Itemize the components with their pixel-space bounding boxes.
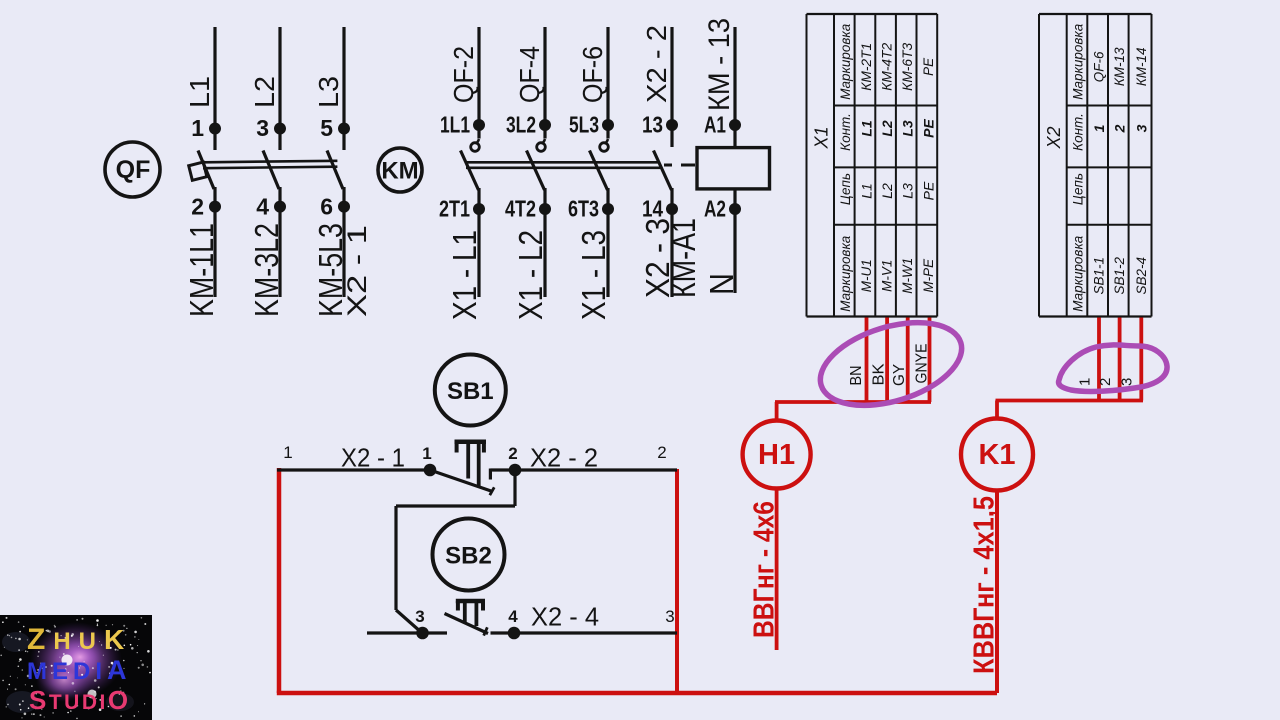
svg-text:КМ - 13: КМ - 13 <box>703 18 736 111</box>
svg-text:1: 1 <box>283 443 292 462</box>
node 4 <box>274 201 286 213</box>
wire to node 2T1 <box>477 188 480 297</box>
KM pole 3L2-4T2 moving contact <box>527 151 545 191</box>
svg-text:A1: A1 <box>704 112 726 138</box>
QF linkage bar <box>203 161 337 163</box>
svg-text:BK: BK <box>871 363 888 385</box>
svg-text:3: 3 <box>256 115 269 141</box>
svg-text:SB1: SB1 <box>447 378 494 405</box>
svg-text:X2 - 2: X2 - 2 <box>641 25 672 103</box>
svg-text:1: 1 <box>1091 124 1107 132</box>
main contact hook <box>542 139 546 144</box>
svg-text:М-W1: М-W1 <box>900 258 915 294</box>
svg-text:2: 2 <box>657 443 666 462</box>
svg-text:PE: PE <box>920 119 936 138</box>
wire X2-2 to loop <box>515 468 677 471</box>
svg-text:1: 1 <box>422 444 431 463</box>
svg-text:2: 2 <box>508 444 517 463</box>
wire bus to H1 <box>775 400 931 404</box>
svg-text:X1: X1 <box>812 126 832 149</box>
svg-text:SB2: SB2 <box>445 543 492 570</box>
svg-text:Маркировка: Маркировка <box>1071 23 1086 99</box>
wire to KM-3L2 <box>278 187 281 297</box>
red loop right wire <box>675 469 679 693</box>
terminal block table X1 <box>807 14 938 317</box>
node 1L1 <box>473 119 485 131</box>
KM designator circle <box>378 148 422 192</box>
KM pole 13-14: upper wire <box>670 27 673 147</box>
node 5 <box>338 123 350 135</box>
svg-text:3L2: 3L2 <box>506 112 536 138</box>
svg-text:2: 2 <box>1112 124 1128 133</box>
svg-text:КМ-А1: КМ-А1 <box>665 218 702 298</box>
svg-text:X2 - 2: X2 - 2 <box>530 443 598 473</box>
node A2 <box>729 203 741 215</box>
svg-text:КМ-13: КМ-13 <box>1112 47 1127 86</box>
KM pole 1L1-2T1 moving contact <box>461 151 479 191</box>
svg-text:X2: X2 <box>1044 126 1064 149</box>
svg-text:2: 2 <box>191 194 204 220</box>
svg-text:КМ-2Т1: КМ-2Т1 <box>859 43 874 91</box>
svg-text:3: 3 <box>1133 124 1149 132</box>
svg-text:КВВГнг - 4х1,5: КВВГнг - 4х1,5 <box>969 496 1001 674</box>
wire X2-4 to loop <box>491 631 678 634</box>
svg-text:X1 - L3: X1 - L3 <box>575 230 612 320</box>
svg-text:L2: L2 <box>879 120 895 137</box>
SB2 contact node 3 <box>416 627 429 640</box>
svg-text:1: 1 <box>191 115 204 141</box>
svg-text:5L3: 5L3 <box>569 112 599 138</box>
wire to node 14 <box>670 188 673 297</box>
SB2 travel stop tick <box>484 627 488 635</box>
svg-text:6T3: 6T3 <box>568 196 599 222</box>
wire to KM-1L1 <box>213 187 216 297</box>
svg-text:РЕ: РЕ <box>921 57 936 76</box>
KM linkage bar (double line) <box>466 161 660 164</box>
QF designator circle <box>105 142 160 197</box>
hand-drawn blob around X2 core labels <box>1059 345 1167 392</box>
wire core BK <box>885 318 889 403</box>
svg-text:4: 4 <box>256 194 269 220</box>
svg-text:М-U1: М-U1 <box>859 259 874 292</box>
main contact hook <box>476 139 480 144</box>
svg-text:3: 3 <box>665 607 674 626</box>
wire X2-1 to SB1 <box>277 468 430 471</box>
KM pole 5L3-6T3 moving contact <box>590 151 608 191</box>
svg-text:1L1: 1L1 <box>440 112 470 138</box>
cable wires X1 to H1 <box>743 307 972 650</box>
coil KM (rectangle) <box>697 148 770 189</box>
QF pole 3: wire L3 <box>342 27 345 150</box>
wire core GY <box>906 318 910 403</box>
node 4T2 <box>539 203 551 215</box>
red loop left wire <box>277 468 282 693</box>
svg-text:L2: L2 <box>879 183 895 199</box>
SB1 contact node 1 <box>424 464 437 477</box>
svg-text:H1: H1 <box>758 439 795 471</box>
svg-text:Конт.: Конт. <box>838 113 853 151</box>
node 3L2 <box>539 119 551 131</box>
SB2 contact node 4 <box>508 627 521 640</box>
circuit breaker QF <box>105 27 372 317</box>
cable wires X2 to K1 <box>961 318 1167 694</box>
control circuit loop <box>277 355 997 694</box>
SB1 travel stop tick <box>490 487 494 495</box>
node 2 <box>209 201 221 213</box>
wire to KM-5L3 <box>342 187 345 297</box>
svg-text:L1: L1 <box>859 183 875 199</box>
svg-text:GY: GY <box>891 364 908 386</box>
contactor KM <box>378 18 770 320</box>
svg-text:13: 13 <box>642 112 663 138</box>
svg-text:QF-6: QF-6 <box>577 46 608 103</box>
svg-text:X1 - L2: X1 - L2 <box>512 230 549 320</box>
node 3 <box>274 123 286 135</box>
cable riser K1 to control loop <box>995 491 999 694</box>
node 2T1 <box>473 203 485 215</box>
svg-text:КМ-6Т3: КМ-6Т3 <box>900 42 915 90</box>
svg-text:5: 5 <box>320 115 333 141</box>
svg-text:1: 1 <box>1077 378 1094 386</box>
svg-text:L3: L3 <box>900 120 916 137</box>
wire core BN <box>865 318 869 403</box>
SB2 moving contact (NO) <box>445 614 489 634</box>
linkage dash to coil <box>664 164 672 167</box>
svg-text:ВВГнг - 4х6: ВВГнг - 4х6 <box>749 501 781 638</box>
SB2 left stub <box>367 631 447 634</box>
svg-text:КМ-4Т2: КМ-4Т2 <box>880 42 895 90</box>
svg-text:2T1: 2T1 <box>439 196 470 222</box>
svg-text:L3: L3 <box>900 183 916 199</box>
QF pole 3 moving contact <box>327 151 343 190</box>
svg-text:KM-3L2: KM-3L2 <box>248 223 285 317</box>
SB2 actuator <box>456 599 485 604</box>
svg-text:KM-1L1: KM-1L1 <box>183 223 220 317</box>
button circle SB2 <box>433 519 505 591</box>
svg-text:L1: L1 <box>184 76 215 108</box>
svg-text:MEDIA: MEDIA <box>27 655 132 685</box>
svg-text:SB1-2: SB1-2 <box>1112 256 1127 294</box>
svg-text:КМ-14: КМ-14 <box>1134 47 1149 86</box>
terminal block table X2 <box>1039 14 1152 317</box>
svg-text:2: 2 <box>1097 378 1114 386</box>
svg-text:X2 - 1: X2 - 1 <box>341 443 405 473</box>
svg-text:Маркировка: Маркировка <box>1071 235 1086 311</box>
svg-text:L2: L2 <box>249 76 280 108</box>
KM pole 13-14 moving contact <box>654 151 672 191</box>
wire to node 4T2 <box>543 188 546 297</box>
wire core 2 <box>1118 318 1122 401</box>
QF pole 1: wire L1 <box>213 27 216 150</box>
svg-text:QF-2: QF-2 <box>448 46 479 103</box>
svg-text:SB2-4: SB2-4 <box>1134 257 1149 295</box>
cable tail H1 <box>775 489 779 651</box>
svg-text:BN: BN <box>848 366 865 386</box>
svg-text:GNYE: GNYE <box>914 344 931 384</box>
svg-text:A2: A2 <box>704 196 726 222</box>
node 6T3 <box>602 203 614 215</box>
QF pole 2: wire L2 <box>278 27 281 150</box>
svg-text:Маркировка: Маркировка <box>838 235 853 311</box>
coil wire A1 <box>733 27 736 148</box>
svg-text:L1: L1 <box>859 120 875 137</box>
svg-text:SB1-1: SB1-1 <box>1092 257 1107 295</box>
svg-text:Конт.: Конт. <box>1071 113 1086 151</box>
SB1 actuator <box>455 440 487 445</box>
svg-text:X1 - L1: X1 - L1 <box>446 230 483 320</box>
svg-text:K1: K1 <box>978 439 1015 471</box>
wire core 1 <box>1097 318 1101 401</box>
SB1 moving contact (NC) <box>430 470 493 492</box>
wire to node 6T3 <box>606 188 609 297</box>
wire core GNYE <box>928 318 932 403</box>
svg-text:14: 14 <box>642 196 663 222</box>
lamp circle H1 <box>743 421 811 489</box>
node 14 <box>666 203 678 215</box>
cable circle K1 <box>961 419 1033 491</box>
svg-text:М-РЕ: М-РЕ <box>921 258 936 293</box>
main contact hook <box>605 139 609 144</box>
svg-text:PE: PE <box>920 181 936 200</box>
branch wire node2 to SB2 <box>513 470 516 506</box>
QF pole 1 moving contact <box>198 151 214 190</box>
QF pole 2 moving contact <box>263 151 279 190</box>
svg-text:N: N <box>703 273 740 295</box>
node A1 <box>729 119 741 131</box>
SB1 fixed contact stub <box>490 468 515 471</box>
svg-text:Маркировка: Маркировка <box>838 23 853 99</box>
svg-text:Цепь: Цепь <box>838 173 853 205</box>
wire bus to K1 <box>996 399 1144 403</box>
svg-text:Цепь: Цепь <box>1071 173 1086 205</box>
svg-text:3: 3 <box>1119 378 1136 386</box>
node 5L3 <box>602 119 614 131</box>
svg-text:4: 4 <box>508 607 518 626</box>
svg-text:X2 - 4: X2 - 4 <box>531 602 599 632</box>
KM pole 3L2-4T2: upper wire <box>543 27 546 139</box>
svg-text:QF-6: QF-6 <box>1092 51 1107 82</box>
button circle SB1 <box>435 355 506 426</box>
node 13 <box>666 119 678 131</box>
svg-text:6: 6 <box>320 194 333 220</box>
svg-text:QF-4: QF-4 <box>514 46 545 103</box>
svg-text:4T2: 4T2 <box>505 196 536 222</box>
QF manual actuator square <box>189 162 207 180</box>
red loop bottom wire <box>277 691 997 696</box>
coil wire A2 to N <box>733 189 736 293</box>
node 1 <box>209 123 221 135</box>
svg-text:X2 - 1: X2 - 1 <box>342 225 372 317</box>
svg-text:3: 3 <box>415 607 424 626</box>
SB1 contact node 2 <box>509 464 522 477</box>
svg-text:М-V1: М-V1 <box>880 260 895 292</box>
KM pole 5L3-6T3: upper wire <box>606 27 609 139</box>
svg-text:L3: L3 <box>313 76 344 108</box>
wire core 3 <box>1139 318 1143 401</box>
svg-text:KM: KM <box>381 158 418 185</box>
node 6 <box>338 201 350 213</box>
hand-drawn oval around X1 core labels <box>810 307 971 420</box>
svg-text:QF: QF <box>116 156 151 184</box>
KM pole 1L1-2T1: upper wire <box>477 27 480 139</box>
ZHUK MEDIA STUDIO logo <box>0 615 152 720</box>
svg-text:ZHUK: ZHUK <box>27 623 132 656</box>
